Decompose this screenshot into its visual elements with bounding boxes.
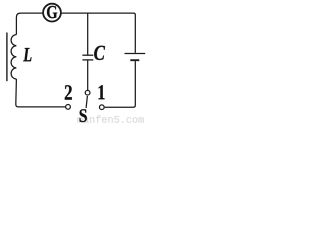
wire: top-left segment with rounded corner down to inductor top	[16, 13, 43, 34]
wire: top middle segment (G to top-right corner down to battery)	[61, 13, 135, 53]
contact 2 terminal circle	[66, 105, 71, 110]
battery short plate	[130, 59, 139, 61]
contact 1 terminal circle	[99, 105, 104, 110]
switch pole circle	[85, 90, 90, 95]
label L	[23, 48, 31, 61]
label C	[94, 46, 105, 60]
battery long plate	[125, 53, 146, 55]
label S	[80, 109, 87, 122]
capacitor branch wire from top	[87, 13, 89, 55]
wire: inductor bottom to bottom-left corner to contact 2	[16, 79, 66, 107]
watermark manfen5.com	[77, 115, 143, 122]
wire: contact 1 to bottom-right corner up to battery	[105, 61, 136, 107]
switch lever S	[86, 96, 87, 108]
galvanometer G circle	[43, 4, 61, 22]
inductor core line	[6, 33, 8, 82]
label G	[47, 6, 57, 18]
capacitor C top plate	[82, 54, 93, 56]
capacitor C bottom plate	[82, 59, 93, 61]
label 1	[99, 85, 105, 99]
label 2	[65, 85, 72, 99]
capacitor branch wire to switch pole	[87, 61, 89, 91]
inductor L coil (4 bumps)	[11, 35, 16, 79]
